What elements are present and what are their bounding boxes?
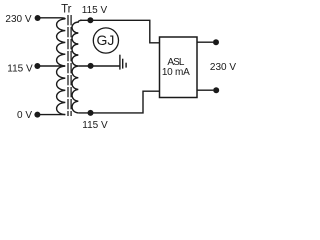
svg-text:230 V: 230 V [5,14,31,25]
wire centre tap to ground [78,65,120,67]
svg-text:10 mA: 10 mA [162,67,190,78]
svg-text:GJ: GJ [97,32,115,48]
svg-text:115 V: 115 V [82,120,108,131]
wire 115V tap [37,65,64,67]
svg-text:230 V: 230 V [210,62,236,73]
ground (earth symbol, bars vertical) [120,55,126,70]
wire 230V tap [38,18,66,19]
wire output top [197,41,213,43]
junction centre tap (dot) [88,63,94,69]
junction secondary bottom (dot) [88,110,94,116]
box U1 ASL 10 mA [160,37,198,98]
glow tube GJ [93,28,118,53]
wire secondary top to box [80,20,160,43]
svg-text:Tr: Tr [61,3,72,15]
terminal output top (dot) [213,39,219,45]
transformer Tr secondary winding (two halves with centre tap) [72,20,82,113]
transformer Tr primary winding [57,19,66,115]
wire output bottom [197,89,214,91]
terminal output bottom (dot) [213,87,219,93]
terminal 115V (dot) [34,63,40,69]
svg-text:115 V: 115 V [82,5,108,16]
wire secondary bottom to box [78,91,160,113]
transformer core (two dashed lines) [67,15,69,116]
junction secondary top (dot) [87,17,93,23]
wire 0V tap [37,114,65,116]
terminal 230V (dot) [35,15,41,21]
svg-text:0 V: 0 V [17,110,32,121]
terminal 0V (dot) [34,112,40,118]
svg-text:115 V: 115 V [7,64,33,75]
